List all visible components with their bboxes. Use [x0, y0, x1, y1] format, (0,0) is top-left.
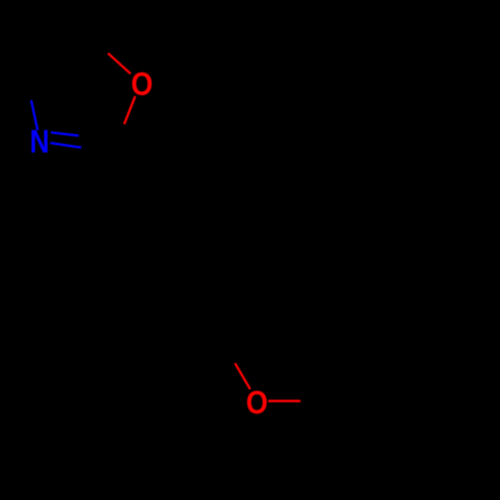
wire bond C-O ether left (red half): [235, 363, 250, 389]
svg-text:O: O: [246, 386, 268, 421]
svg-text:O: O: [131, 67, 153, 102]
wire double bond N3=C2 main line (blue half): [50, 143, 81, 148]
svg-text:N: N: [30, 125, 50, 161]
wire bond C5-O1 (red half): [108, 53, 131, 74]
wire bond O1-C2 (red half): [124, 96, 135, 124]
wire double bond N3=C2 inner line (blue half): [51, 132, 79, 135]
wire bond O-C ether right (red half): [268, 400, 300, 402]
wire bond C4-N3 (blue half): [31, 100, 37, 130]
